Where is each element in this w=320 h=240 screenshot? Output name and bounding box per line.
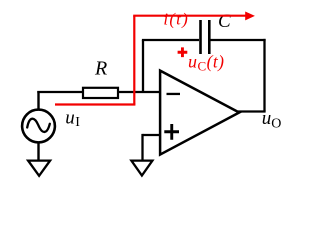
op-amp plus sign bbox=[164, 124, 179, 140]
ground (source) bbox=[28, 161, 50, 176]
svg-text:R: R bbox=[94, 58, 107, 80]
wire: feedback vertical bbox=[142, 40, 144, 93]
op-amp minus sign bbox=[167, 93, 181, 95]
wire: resistor to op-amp inverting input bbox=[118, 91, 160, 93]
wire: non-inverting input vertical to ground bbox=[141, 134, 143, 163]
svg-text:O: O bbox=[271, 117, 281, 132]
svg-text:C: C bbox=[218, 11, 231, 32]
svg-text:I: I bbox=[75, 115, 80, 130]
red wire: vertical riser bbox=[133, 16, 135, 105]
resistor R bbox=[83, 88, 118, 98]
op-amp U1 triangle bbox=[160, 71, 239, 155]
wire: source top vertical bbox=[37, 91, 39, 110]
svg-text:u: u bbox=[262, 108, 272, 129]
svg-text:C: C bbox=[198, 59, 207, 74]
capacitor C left plate bbox=[199, 20, 202, 54]
svg-text:u: u bbox=[65, 108, 75, 129]
red arrowhead of i(t) bbox=[245, 12, 255, 21]
red wire: bottom horizontal from source node bbox=[55, 103, 135, 105]
ground (op-amp non-inverting input) bbox=[131, 161, 152, 176]
wire: output horizontal bbox=[238, 110, 266, 112]
red wire: top horizontal current path bbox=[133, 15, 246, 17]
capacitor C right plate bbox=[208, 20, 211, 54]
wire: top horizontal to capacitor left bbox=[142, 39, 199, 41]
voltage source sine wave bbox=[27, 119, 50, 132]
wire: right vertical down to output bbox=[263, 39, 265, 112]
svg-text:u: u bbox=[188, 52, 197, 72]
wire: main horizontal from source to resistor bbox=[37, 91, 84, 93]
wire: capacitor right to corner bbox=[211, 39, 266, 41]
voltage source circle bbox=[22, 110, 55, 143]
wire: source bottom vertical to ground bbox=[37, 142, 39, 163]
svg-text:i(t): i(t) bbox=[163, 10, 189, 29]
svg-text:(t): (t) bbox=[207, 52, 225, 72]
red plus polarity mark bbox=[178, 47, 188, 57]
wire: non-inverting input horizontal bbox=[143, 134, 161, 136]
